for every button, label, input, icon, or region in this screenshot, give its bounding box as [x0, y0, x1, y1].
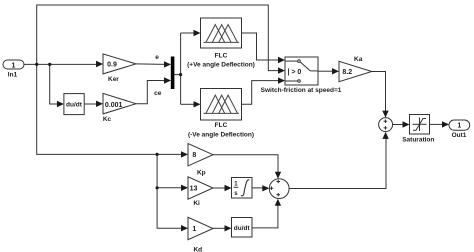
svg-text:13: 13	[190, 186, 198, 193]
wire In1 to Ker	[24, 63, 96, 65]
svg-text:8.2: 8.2	[342, 69, 352, 76]
wire du/dt to Kc	[84, 103, 96, 105]
sum block Sum1	[379, 118, 393, 132]
wire ce: Kc to Mux	[136, 81, 165, 104]
svg-text:Kc: Kc	[103, 116, 112, 123]
svg-text:1: 1	[457, 123, 461, 130]
wire FLC2 output to switch input 3	[242, 81, 280, 105]
wire Saturation to Out1	[430, 123, 444, 125]
input port In1	[3, 60, 24, 69]
junction node In1-derivative branch	[48, 63, 51, 66]
svg-text:Switch-friction at speed=1: Switch-friction at speed=1	[261, 87, 342, 94]
svg-text:FLC: FLC	[215, 122, 228, 129]
svg-text:(+Ve angle Deflection): (+Ve angle Deflection)	[187, 61, 255, 68]
sum block Sum2	[269, 179, 289, 199]
svg-text:0.001: 0.001	[105, 102, 123, 109]
svg-text:Ki: Ki	[193, 200, 200, 207]
svg-text:Kp: Kp	[197, 169, 206, 176]
svg-text:1: 1	[12, 62, 16, 69]
mux block	[171, 57, 175, 90]
wire FLC1 output to switch input 1	[242, 33, 280, 60]
svg-text:FLC: FLC	[215, 52, 228, 59]
svg-text:8: 8	[192, 152, 196, 159]
svg-text:0.9: 0.9	[107, 61, 117, 68]
wire Sum1 output to Saturation	[393, 124, 404, 126]
wire vertical feed to FLC1 and FLC2	[180, 33, 182, 104]
wire Ki output to Integrator	[213, 187, 226, 189]
svg-text:Saturation: Saturation	[402, 137, 434, 144]
svg-text:ce: ce	[154, 90, 162, 97]
wire vertical PID distribution	[157, 154, 182, 228]
svg-text:1: 1	[192, 226, 196, 233]
svg-text:Ka: Ka	[354, 56, 363, 63]
integrator block 1/s	[232, 178, 253, 199]
svg-text:Ker: Ker	[108, 76, 119, 83]
wire switch output to Ka	[318, 70, 333, 72]
saturation block	[402, 115, 434, 144]
svg-text:du/dt: du/dt	[234, 225, 251, 232]
junction node Kp branch	[156, 153, 159, 156]
wire Kp output to Sum2 top	[213, 155, 278, 173]
wire Integrator to Sum2 left	[252, 187, 263, 189]
switch block Switch-friction at speed=1	[261, 57, 342, 94]
derivative block du/dt (upper)	[64, 94, 84, 115]
output port Out1	[449, 120, 470, 139]
wire du/dt2 output up to Sum2 bottom	[252, 205, 278, 228]
svg-text:du/dt: du/dt	[66, 102, 83, 109]
gain Ka 8.2	[339, 56, 372, 82]
wire branch down to du/dt	[50, 64, 58, 104]
gain Kc 0.001	[103, 93, 136, 123]
wire feedback loop top: In1 node up, across, down to switch control	[37, 5, 279, 71]
svg-text:Out1: Out1	[452, 132, 467, 139]
svg-text:| > 0: | > 0	[288, 69, 302, 76]
arrowheads	[96, 61, 103, 67]
svg-text:(-Ve angle Deflection): (-Ve angle Deflection)	[188, 131, 254, 138]
wire feedback left vertical down to PID row	[37, 64, 182, 154]
svg-text:e: e	[155, 54, 159, 61]
derivative block du/dt (lower)	[232, 218, 253, 238]
FLC block (+Ve angle Deflection)	[187, 18, 255, 68]
svg-text:Kd: Kd	[193, 246, 202, 252]
gain Ker 0.9	[103, 54, 136, 83]
FLC block (-Ve angle Deflection)	[188, 89, 254, 139]
wire Mux output to FLC feed node	[174, 74, 180, 76]
gain Ki 13	[188, 177, 213, 207]
wire Ka output down to Sum1 top	[372, 72, 386, 112]
junction node In1-feedback	[35, 63, 38, 66]
junction node mux output split	[179, 73, 182, 76]
wire Sum2 output up to Sum1 bottom	[289, 138, 386, 189]
junction node Ki branch	[156, 186, 159, 189]
wire e: Ker to Mux	[136, 63, 165, 66]
wire Kd output to du/dt2	[213, 227, 226, 229]
svg-text:In1: In1	[8, 72, 18, 79]
gain Kd 1	[188, 217, 213, 252]
gain Kp 8	[188, 144, 213, 177]
